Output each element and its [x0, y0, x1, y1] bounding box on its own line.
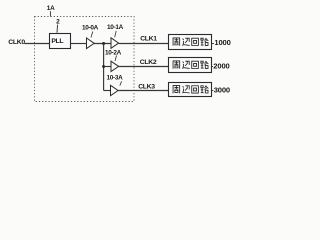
wire CLK1 (buffer 10-1A output to box) — [119, 43, 169, 45]
wire trunk corner to row3 — [104, 90, 111, 92]
text 周辺回路 (box 1000) — [173, 38, 208, 46]
peripheral circuit box 3000 — [169, 83, 212, 97]
buffer 10-3A triangle — [111, 85, 119, 95]
wire CLK3 (buffer 10-3A output to box) — [118, 90, 168, 92]
svg-text:3000: 3000 — [214, 86, 230, 95]
svg-text:1A: 1A — [47, 5, 55, 12]
wire trunk vertical — [103, 44, 105, 91]
leader line for 10-0A — [91, 32, 93, 38]
leader line for 3000 — [212, 90, 214, 92]
chip boundary 1A (dashed box) — [35, 17, 135, 102]
wire CLK0 input — [25, 43, 50, 45]
svg-text:2000: 2000 — [213, 61, 229, 70]
wire CLK2 (buffer 10-2A output to box) — [119, 66, 169, 68]
junction node B (row2) — [102, 65, 105, 68]
leader line for 10-2A — [115, 56, 117, 62]
junction node A (row1) — [102, 42, 105, 45]
svg-text:10-3A: 10-3A — [107, 74, 124, 81]
wire buffer 10-0A output to junction — [94, 43, 111, 45]
buffer 10-0A triangle — [87, 38, 95, 49]
svg-text:CLK2: CLK2 — [140, 59, 157, 66]
leader line for 2000 — [212, 66, 214, 68]
PLL U2 box — [50, 34, 71, 49]
svg-text:CLK0: CLK0 — [8, 39, 25, 46]
wire branch row2 — [104, 66, 111, 68]
svg-text:PLL: PLL — [51, 38, 63, 45]
leader line for 1A — [49, 11, 51, 16]
wire PLL output — [71, 43, 87, 45]
text 周辺回路 (box 3000) — [173, 86, 208, 94]
svg-text:1000: 1000 — [214, 38, 230, 47]
leader line for 1000 — [212, 43, 215, 45]
svg-text:2: 2 — [56, 19, 60, 26]
svg-text:10-0A: 10-0A — [82, 24, 99, 31]
svg-text:CLK3: CLK3 — [138, 83, 155, 90]
leader line for 10-1A — [115, 31, 117, 37]
leader line for 10-3A — [120, 81, 122, 85]
buffer 10-2A triangle — [111, 61, 119, 71]
svg-text:10-2A: 10-2A — [105, 50, 122, 57]
peripheral circuit box 1000 — [169, 35, 212, 50]
leader line for 2 — [56, 25, 59, 33]
text 周辺回路 (box 2000) — [173, 61, 208, 69]
buffer 10-1A triangle — [111, 38, 119, 49]
svg-text:10-1A: 10-1A — [107, 24, 124, 31]
svg-text:CLK1: CLK1 — [140, 36, 157, 43]
peripheral circuit box 2000 — [169, 58, 212, 73]
